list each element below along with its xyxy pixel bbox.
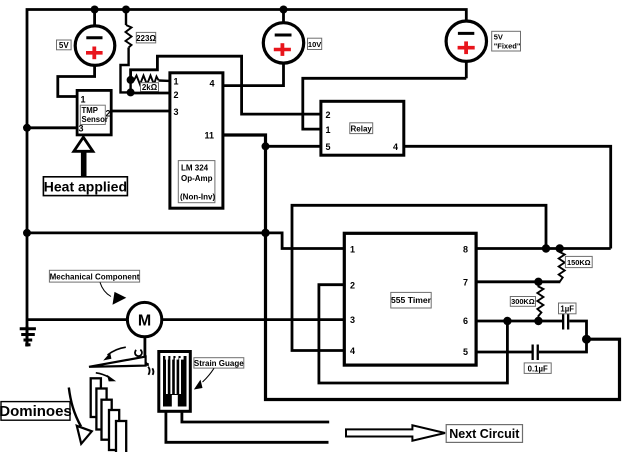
svg-text:1: 1 bbox=[326, 125, 331, 135]
motor shaft bbox=[145, 337, 149, 365]
domino 3 bbox=[102, 400, 112, 440]
label 10V bbox=[308, 38, 322, 49]
node pin8 loop bbox=[542, 244, 550, 252]
mech pointer curve bbox=[100, 282, 111, 296]
strain gauge bbox=[159, 352, 191, 412]
label 150k bbox=[565, 256, 592, 267]
svg-text:M: M bbox=[138, 313, 151, 330]
domino 4 bbox=[109, 410, 119, 450]
wire relay pin5 to pin11 node bbox=[266, 145, 321, 148]
node pin11 relay5 bbox=[262, 142, 270, 150]
svg-text:Dominoes: Dominoes bbox=[0, 403, 72, 420]
wire 555 pin2 loop to pin6 bbox=[319, 285, 508, 383]
svg-text:2kΩ: 2kΩ bbox=[142, 83, 158, 92]
ground bbox=[20, 326, 36, 347]
wire 5V to TMP pin1 bbox=[58, 66, 95, 97]
svg-text:7: 7 bbox=[463, 278, 468, 288]
svg-text:5V: 5V bbox=[494, 32, 503, 41]
wire left rail to pin11 net bbox=[27, 231, 266, 234]
svg-text:150KΩ: 150KΩ bbox=[567, 258, 591, 267]
svg-text:Relay: Relay bbox=[351, 124, 373, 133]
domino 1 bbox=[91, 378, 101, 417]
resistor 2k bbox=[131, 76, 170, 85]
op-amp U1 LM324 bbox=[170, 73, 223, 208]
wire TMP pin2 to op-amp pin3 bbox=[111, 110, 170, 113]
svg-text:2: 2 bbox=[174, 90, 179, 100]
svg-text:5: 5 bbox=[326, 142, 331, 152]
label 2k bbox=[141, 83, 159, 92]
node 300k bottom bbox=[534, 317, 542, 325]
wire loop node to relay pin2 bbox=[131, 56, 321, 114]
svg-text:5: 5 bbox=[463, 347, 468, 357]
svg-text:Heat applied: Heat applied bbox=[44, 178, 127, 194]
svg-text:11: 11 bbox=[205, 131, 215, 141]
wire relay pin4 to 555 pin8 rail bbox=[404, 146, 611, 248]
label 0.1uF bbox=[524, 363, 551, 374]
label 223ohm bbox=[136, 32, 156, 43]
svg-text:"Fixed": "Fixed" bbox=[494, 41, 521, 50]
domino 2 bbox=[96, 389, 106, 430]
node rail mid bbox=[23, 229, 31, 237]
pivot circle bbox=[135, 350, 142, 356]
strain pointer arrowhead bbox=[194, 380, 203, 390]
label Dominoes bbox=[0, 402, 72, 421]
voltage source 10V bbox=[263, 10, 303, 64]
svg-text:555 Timer: 555 Timer bbox=[391, 295, 432, 305]
domino arrow small bbox=[96, 373, 116, 382]
svg-text:(Non-Inv): (Non-Inv) bbox=[180, 193, 215, 202]
wire rail to motor bbox=[27, 318, 128, 321]
wire 2k node vertical bbox=[129, 80, 131, 93]
TMP sensor U2 bbox=[77, 90, 111, 134]
voltage source 5V fixed bbox=[446, 21, 486, 78]
wire op-amp pin11 long net bbox=[223, 135, 620, 400]
svg-text:4: 4 bbox=[350, 346, 355, 356]
capacitor 0.1uF bbox=[532, 339, 587, 360]
wire 555 pin5 bbox=[476, 351, 531, 354]
svg-text:3: 3 bbox=[174, 107, 179, 117]
label Next Circuit bbox=[446, 425, 522, 443]
wire 5V fixed to relay pin1 bbox=[303, 78, 467, 129]
svg-text:1: 1 bbox=[174, 77, 179, 87]
dominoes big arrow bbox=[69, 388, 92, 444]
lever arrow bbox=[103, 347, 126, 360]
label 1uF bbox=[559, 303, 577, 314]
relay K1 bbox=[321, 101, 404, 155]
node top junction 5V bbox=[91, 6, 99, 14]
domino 5 bbox=[116, 421, 126, 452]
wire strain gauge lead left bbox=[166, 411, 329, 442]
svg-text:6: 6 bbox=[463, 316, 468, 326]
wire op-amp pin4 to 10V bbox=[223, 64, 284, 86]
capacitor 1uF bbox=[562, 314, 587, 339]
voltage source 5V bbox=[75, 10, 115, 66]
svg-text:Op-Amp: Op-Amp bbox=[181, 174, 213, 183]
label Mechanical Component bbox=[49, 270, 139, 282]
svg-text:Next Circuit: Next Circuit bbox=[449, 427, 520, 441]
next circuit block arrow bbox=[346, 425, 445, 440]
svg-text:TMP: TMP bbox=[82, 106, 98, 115]
svg-text:2: 2 bbox=[350, 280, 355, 290]
node top junction 223 bbox=[122, 6, 130, 14]
mech pointer arrowhead bbox=[113, 292, 127, 305]
resistor 223ohm bbox=[121, 10, 132, 93]
motor M bbox=[127, 302, 161, 336]
node 300k top bbox=[534, 278, 542, 286]
vibration arcs bbox=[148, 367, 153, 375]
resistor 300k bbox=[537, 282, 543, 321]
svg-text:3: 3 bbox=[350, 315, 355, 325]
strain pointer curve bbox=[203, 368, 215, 382]
svg-text:10V: 10V bbox=[308, 40, 321, 49]
label 5V fixed bbox=[492, 31, 521, 51]
wire 555 pin8 bbox=[476, 247, 611, 250]
label 5V bbox=[57, 40, 72, 50]
heat applied arrow bbox=[74, 137, 93, 177]
label 300k bbox=[510, 297, 535, 307]
svg-text:1µF: 1µF bbox=[560, 305, 574, 314]
wire 555 pin6 bbox=[476, 320, 563, 323]
node pin11 mid bbox=[261, 229, 269, 237]
node top junction 10V bbox=[280, 6, 288, 14]
svg-text:0.1µF: 0.1µF bbox=[528, 364, 548, 373]
label Strain Guage bbox=[194, 358, 244, 368]
svg-text:8: 8 bbox=[463, 245, 468, 255]
svg-text:5V: 5V bbox=[59, 41, 69, 50]
wire top rail bbox=[27, 10, 466, 329]
node caps junction bbox=[582, 335, 591, 344]
svg-text:LM 324: LM 324 bbox=[181, 164, 209, 173]
wire 2k node to op-amp pin2 bbox=[131, 92, 170, 95]
wire to 555 pin1 bbox=[266, 233, 345, 249]
svg-text:Mechanical Component: Mechanical Component bbox=[50, 272, 140, 281]
svg-text:Sensor: Sensor bbox=[82, 115, 108, 124]
555 timer U3 bbox=[344, 233, 476, 365]
wire 555 pin7 bbox=[476, 280, 560, 283]
svg-text:1: 1 bbox=[350, 245, 355, 255]
svg-text:4: 4 bbox=[393, 142, 398, 152]
wire 555 pin4 loop to pin8 bbox=[292, 205, 546, 350]
lever bbox=[89, 357, 146, 367]
resistor 150k bbox=[559, 249, 565, 282]
node 2k top bbox=[127, 76, 135, 84]
svg-text:4: 4 bbox=[210, 78, 215, 88]
node rail TMP bbox=[23, 124, 31, 132]
svg-text:1: 1 bbox=[81, 95, 86, 105]
svg-text:2: 2 bbox=[326, 110, 331, 120]
node pin6 loop bbox=[503, 317, 511, 325]
node 150k top bbox=[556, 244, 564, 252]
svg-text:Strain Guage: Strain Guage bbox=[194, 359, 244, 368]
svg-text:3: 3 bbox=[79, 124, 84, 134]
svg-text:300KΩ: 300KΩ bbox=[511, 297, 535, 306]
node 2k bottom bbox=[127, 88, 135, 96]
wire strain gauge lead right bbox=[182, 411, 329, 422]
label Heat applied bbox=[43, 177, 127, 196]
svg-text:223Ω: 223Ω bbox=[136, 34, 156, 43]
wire TMP pin3 to left rail bbox=[27, 126, 77, 129]
wire motor to 555 pin3 bbox=[162, 318, 344, 321]
